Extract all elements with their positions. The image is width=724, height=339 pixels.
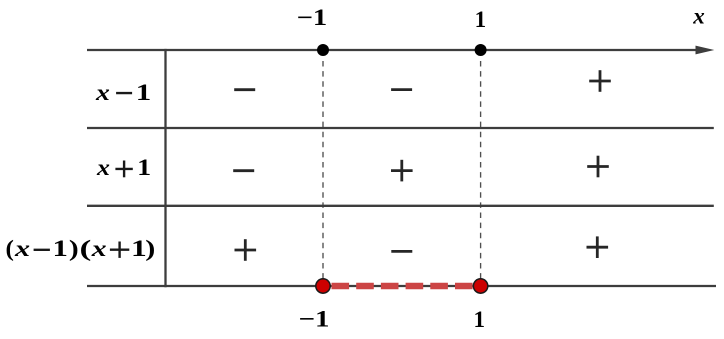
svg-text:): ) <box>145 236 155 261</box>
svg-text:): ) <box>69 236 79 261</box>
svg-text:−1: −1 <box>299 307 330 332</box>
svg-text:1: 1 <box>473 307 485 332</box>
svg-text:1: 1 <box>52 236 67 261</box>
svg-text:1: 1 <box>475 7 487 32</box>
svg-text:x: x <box>96 155 110 181</box>
svg-text:1: 1 <box>137 155 151 181</box>
svg-text:(: ( <box>80 236 92 261</box>
svg-text:(: ( <box>6 236 14 261</box>
svg-text:−1: −1 <box>297 5 328 30</box>
svg-text:x: x <box>91 236 107 261</box>
svg-text:x: x <box>14 236 30 261</box>
svg-text:x: x <box>692 4 705 29</box>
svg-text:x: x <box>95 80 110 106</box>
svg-text:1: 1 <box>136 80 151 106</box>
